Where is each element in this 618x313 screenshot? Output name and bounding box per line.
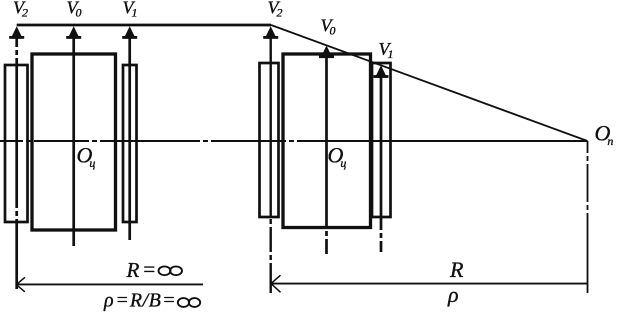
- dimension arrow at roller 2: [271, 275, 281, 292]
- infinity symbol right: [178, 298, 200, 307]
- svg-text:ρ: ρ: [447, 282, 459, 307]
- roller 1 left flange plate: [5, 65, 28, 222]
- top velocity line: [17, 24, 271, 27]
- vector V2 roller 2: [263, 26, 278, 293]
- svg-text:ρ=R/B=: ρ=R/B=: [103, 290, 175, 312]
- dimension line R (right): [271, 283, 588, 285]
- roller 1 body: [32, 54, 116, 230]
- diagonal velocity profile line to pole: [271, 25, 588, 141]
- roller 2 left flange plate: [260, 63, 279, 217]
- svg-text:R: R: [126, 258, 140, 282]
- vector V2 roller 1: [9, 26, 24, 289]
- vector V1 roller 2: [374, 65, 389, 252]
- roller 1 right flange plate: [123, 65, 137, 222]
- vector V0 roller 2: [319, 46, 334, 255]
- svg-text:R: R: [449, 257, 464, 282]
- horizontal axis centerline: [0, 140, 588, 142]
- roller 2 right flange plate: [372, 63, 391, 217]
- dimension arrow left end: [17, 277, 26, 292]
- vector V1 roller 1: [122, 26, 137, 240]
- roller 2 body: [283, 54, 371, 228]
- svg-text:=: =: [142, 257, 156, 281]
- vector V0 roller 1: [66, 26, 81, 246]
- dimension line R=infinity (left): [17, 283, 204, 285]
- extension line at pole: [587, 141, 589, 293]
- infinity symbol left: [159, 266, 183, 275]
